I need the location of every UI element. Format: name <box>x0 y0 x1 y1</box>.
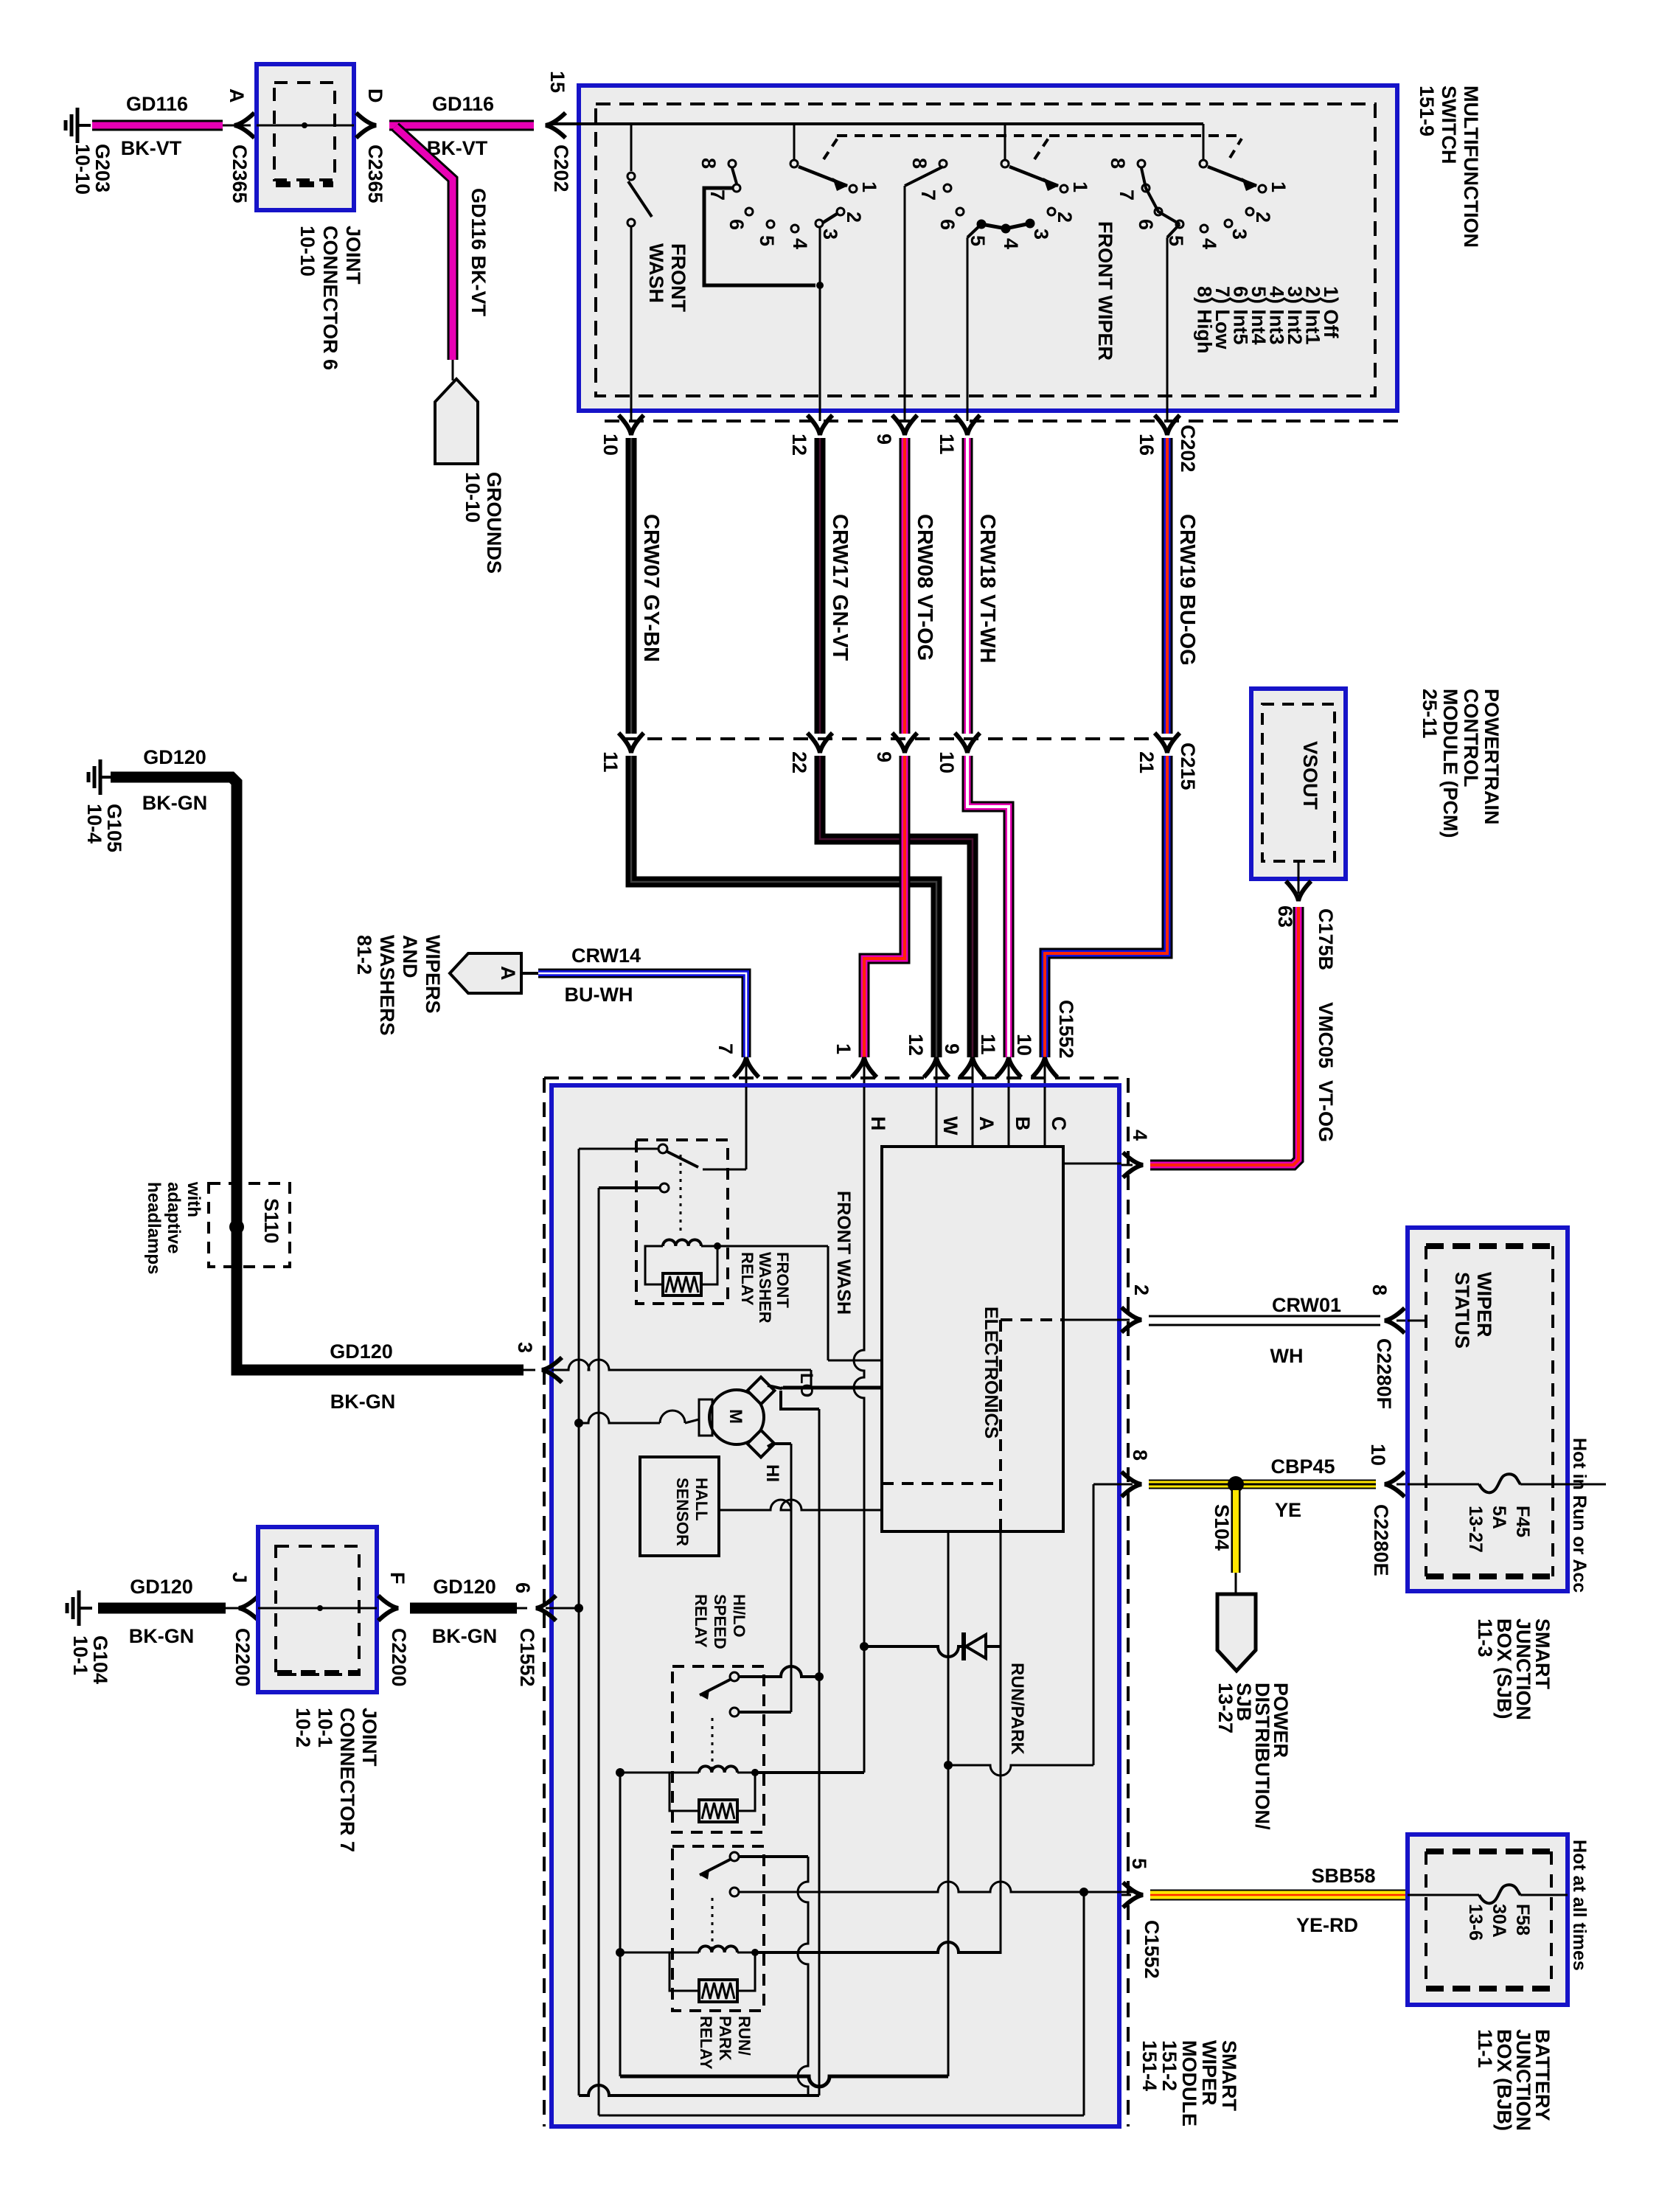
svg-text:SBB58: SBB58 <box>1311 1865 1375 1887</box>
module pin3 internal line <box>552 1360 811 1388</box>
svg-text:12: 12 <box>788 434 810 456</box>
module internal bus B <box>598 1188 600 2115</box>
wire CRW14 BU-WH <box>521 973 746 1057</box>
wire SBB58 YE-RD <box>1150 1890 1408 1901</box>
label LO <box>796 1373 816 1397</box>
svg-text:C1552: C1552 <box>1055 1000 1077 1059</box>
svg-text:C2365: C2365 <box>229 145 251 204</box>
svg-text:30A: 30A <box>1489 1904 1509 1938</box>
svg-text:C2200: C2200 <box>388 1628 410 1687</box>
label C202 at pin16 <box>1177 425 1199 473</box>
label BATTERY JUNCTION BOX BJB 11-1 <box>1474 2029 1554 2131</box>
svg-text:B: B <box>1012 1116 1034 1131</box>
svg-text:D: D <box>364 88 386 103</box>
svg-text:with: with <box>184 1181 204 1217</box>
C202 pin 10 arrow <box>599 415 644 456</box>
run-park coil line <box>755 1942 1001 1952</box>
power distribution off-page symbol <box>1217 1594 1256 1671</box>
svg-text:A: A <box>975 1116 998 1131</box>
svg-text:151-9: 151-9 <box>1416 86 1438 136</box>
svg-text:MODULE: MODULE <box>1178 2040 1200 2126</box>
svg-text:F45: F45 <box>1512 1506 1533 1537</box>
wiper status SJB box <box>1408 1228 1568 1591</box>
svg-text:10-1: 10-1 <box>69 1635 91 1675</box>
connector pin D C2365 <box>356 88 386 204</box>
wiper switch deck 1 <box>698 124 880 421</box>
module front wash assembly box <box>636 1140 728 1304</box>
connector pin 15 C202 <box>546 71 572 192</box>
wire S104 to power distribution <box>1231 1490 1241 1594</box>
multifunction switch box <box>579 86 1397 411</box>
label GD116 <box>126 93 188 115</box>
svg-text:CRW08 VT-OG: CRW08 VT-OG <box>913 514 936 661</box>
wiper motor M <box>699 1377 774 1458</box>
module pin 6 C1552 <box>512 1582 556 1687</box>
svg-text:LO: LO <box>796 1373 816 1397</box>
svg-text:RELAY: RELAY <box>692 1594 710 1648</box>
svg-text:22: 22 <box>788 751 810 773</box>
svg-text:YE-RD: YE-RD <box>1296 1914 1358 1936</box>
svg-text:BK-GN: BK-GN <box>129 1625 195 1647</box>
svg-text:FRONT WASH: FRONT WASH <box>833 1191 854 1315</box>
svg-text:1: 1 <box>832 1043 855 1054</box>
svg-text:C175B: C175B <box>1315 908 1337 970</box>
svg-text:13-6: 13-6 <box>1465 1904 1486 1941</box>
svg-text:A: A <box>497 966 519 981</box>
svg-text:C2200: C2200 <box>232 1628 254 1687</box>
svg-text:C: C <box>1048 1116 1070 1131</box>
label GD120 G104 <box>130 1576 193 1598</box>
module line B <box>1009 1087 1034 1148</box>
svg-text:W: W <box>939 1116 961 1135</box>
svg-text:CBP45: CBP45 <box>1270 1455 1335 1478</box>
module pin8 internal <box>1093 1484 1133 1765</box>
svg-text:3: 3 <box>819 229 841 240</box>
svg-text:C202: C202 <box>550 145 572 192</box>
module pin 9 arrow <box>941 1043 985 1087</box>
fuse F58 <box>1408 1885 1568 1903</box>
motor LO line <box>783 1386 882 1390</box>
front washer relay output <box>717 1246 882 1360</box>
off-page connector A <box>450 953 521 993</box>
electronics box <box>882 1147 1063 1531</box>
label VSOUT <box>1299 741 1321 810</box>
module pin5 internal line <box>739 1882 1133 1896</box>
module pin 5 arrow <box>1121 1858 1163 1979</box>
label FRONT WASH interior <box>833 1191 854 1315</box>
battery node line y2394 <box>944 1761 1093 1775</box>
module connector dashed boundary <box>544 1078 1128 2126</box>
svg-text:10-10: 10-10 <box>462 472 484 523</box>
fuse F45 <box>1408 1474 1606 1492</box>
C215 pin 11 arrow <box>599 733 644 773</box>
svg-text:ELECTRONICS: ELECTRONICS <box>981 1307 1001 1439</box>
wire CRW07 to module pin 12 <box>631 756 936 1057</box>
svg-text:WASHER: WASHER <box>756 1252 774 1324</box>
svg-text:10-4: 10-4 <box>83 804 105 844</box>
svg-text:WIPERS: WIPERS <box>422 935 444 1014</box>
label WIPER STATUS <box>1451 1272 1495 1349</box>
svg-text:BK-VT: BK-VT <box>121 137 182 159</box>
wire CRW08 VT-OG <box>905 438 936 734</box>
C202 pin 9 arrow <box>873 415 917 445</box>
svg-text:VSOUT: VSOUT <box>1299 741 1321 810</box>
svg-text:BU-WH: BU-WH <box>565 984 633 1006</box>
joint connector 6 <box>257 64 354 210</box>
joint connector 7 <box>258 1527 377 1692</box>
ground G203 <box>66 108 114 195</box>
svg-text:CRW14: CRW14 <box>571 945 641 967</box>
C2280F pin 8 arrow <box>1368 1284 1409 1409</box>
svg-text:3: 3 <box>514 1342 536 1353</box>
label SMART JUNCTION BOX SJB 11-3 <box>1474 1618 1554 1720</box>
svg-text:GD116 BK-VT: GD116 BK-VT <box>467 188 490 317</box>
wire CRW01 inside SJB <box>1408 1320 1427 1322</box>
svg-text:headlamps: headlamps <box>144 1182 164 1274</box>
svg-text:AND: AND <box>399 935 421 978</box>
svg-text:G104: G104 <box>89 1635 111 1684</box>
C215 pin 22 arrow <box>788 733 832 773</box>
svg-text:C202: C202 <box>1177 425 1199 473</box>
svg-text:11: 11 <box>599 751 622 773</box>
svg-text:JOINT: JOINT <box>342 226 364 285</box>
svg-text:POWERTRAIN: POWERTRAIN <box>1481 689 1503 825</box>
svg-text:8) High: 8) High <box>1194 286 1216 354</box>
svg-text:2: 2 <box>1054 212 1076 223</box>
svg-text:GD120: GD120 <box>143 746 206 768</box>
wire VMC05 VT-OG <box>1150 907 1298 1165</box>
motor HI stub <box>768 1444 791 1447</box>
svg-text:SPEED: SPEED <box>711 1594 729 1649</box>
label GROUNDS 10-10 <box>462 472 505 574</box>
module front wash switch <box>579 1087 746 1192</box>
svg-text:RUN/: RUN/ <box>735 2016 754 2056</box>
run-park upper contact line <box>739 1855 808 1858</box>
label with adaptive headlamps <box>144 1181 204 1274</box>
svg-text:2: 2 <box>1130 1284 1152 1295</box>
svg-text:6: 6 <box>512 1582 534 1593</box>
grounds off-page symbol <box>435 379 478 464</box>
label C1552 top <box>1055 1000 1077 1059</box>
label GD120 G105 <box>143 746 206 768</box>
label GD116 BK-VT branch <box>467 188 490 317</box>
wire CRW17 GN-VT <box>820 438 852 734</box>
C2280E pin 10 arrow <box>1367 1444 1409 1576</box>
svg-text:1: 1 <box>1069 181 1091 192</box>
svg-text:2: 2 <box>1252 212 1274 223</box>
svg-text:81-2: 81-2 <box>353 935 375 975</box>
svg-text:6: 6 <box>726 219 748 230</box>
wire CRW18 to module pin 11 <box>967 756 1009 1057</box>
svg-text:YE: YE <box>1275 1499 1301 1521</box>
module bottom line 2 <box>579 2085 819 2096</box>
module pin 11 arrow <box>977 1034 1021 1087</box>
svg-text:HI: HI <box>762 1464 782 1482</box>
label SBB58 <box>1311 1865 1375 1887</box>
svg-text:WIPER: WIPER <box>1473 1272 1495 1338</box>
motor feed line <box>574 1411 699 1427</box>
svg-text:1: 1 <box>1267 181 1290 192</box>
hi-lo upper contact line <box>739 1666 819 1677</box>
C202 pin 12 arrow <box>788 415 832 456</box>
svg-text:adaptive: adaptive <box>164 1182 184 1253</box>
label POWERTRAIN CONTROL MODULE <box>1419 689 1503 838</box>
label POWER DISTRIBUTION SJB 13-27 <box>1214 1683 1292 1830</box>
svg-text:H: H <box>867 1116 889 1131</box>
svg-text:151-2: 151-2 <box>1158 2040 1180 2091</box>
module H line from pin 1 <box>751 1087 869 1776</box>
label BK-GN pin3 <box>330 1391 396 1413</box>
module line W <box>936 1087 961 1148</box>
svg-text:10-1: 10-1 <box>314 1708 336 1747</box>
svg-text:16: 16 <box>1135 434 1158 456</box>
label VMC05 <box>1315 1002 1337 1068</box>
module pin 2 arrow <box>1065 1284 1152 1332</box>
label BK-GN G104 <box>129 1625 195 1647</box>
svg-text:CONTROL: CONTROL <box>1460 689 1482 787</box>
svg-text:Hot at all times: Hot at all times <box>1569 1840 1590 1971</box>
connector pin A C2365 <box>226 88 254 204</box>
svg-text:WH: WH <box>1270 1345 1304 1367</box>
motor vertical to hi-lo relay <box>815 1409 824 2096</box>
C215 pin 10 arrow <box>936 733 980 773</box>
hi-lo lower contact line <box>739 1711 791 1714</box>
svg-text:BK-VT: BK-VT <box>427 137 488 159</box>
label BK-VT <box>121 137 182 159</box>
svg-text:4: 4 <box>1000 238 1022 249</box>
wire CBP45 YE <box>1149 1480 1376 1489</box>
module line C <box>1045 1087 1070 1148</box>
svg-text:F: F <box>386 1572 408 1585</box>
powertrain control module box <box>1251 689 1346 879</box>
svg-text:3: 3 <box>1228 229 1251 240</box>
label C215 <box>1177 742 1199 790</box>
svg-text:WASH: WASH <box>645 243 667 303</box>
wire CRW19 BU-OG <box>1167 438 1199 734</box>
svg-text:G105: G105 <box>103 804 125 852</box>
label HI <box>762 1464 782 1482</box>
module pin 10 arrow <box>1013 1034 1057 1087</box>
svg-text:CRW01: CRW01 <box>1272 1294 1341 1316</box>
smart wiper module box <box>552 1085 1119 2126</box>
svg-text:FRONT: FRONT <box>773 1252 792 1308</box>
svg-text:CONNECTOR 7: CONNECTOR 7 <box>336 1708 358 1852</box>
svg-text:7: 7 <box>1116 189 1138 201</box>
label F58 30A 13-6 <box>1465 1904 1533 1941</box>
wire GD116 BK-VT (C2365 to C202) <box>389 120 534 131</box>
svg-text:5A: 5A <box>1489 1506 1509 1529</box>
svg-text:4: 4 <box>1129 1130 1151 1141</box>
svg-text:5: 5 <box>1128 1858 1150 1869</box>
hi-lo relay coil to H line <box>755 1771 864 1774</box>
svg-text:8: 8 <box>1368 1284 1391 1295</box>
svg-text:10-2: 10-2 <box>292 1708 314 1747</box>
label MULTIFUNCTION SWITCH 151-9 <box>1416 86 1482 248</box>
svg-text:9: 9 <box>873 751 895 762</box>
wire GD120 BK-GN from G105 <box>111 777 535 1370</box>
svg-text:25-11: 25-11 <box>1419 689 1441 739</box>
svg-text:1: 1 <box>858 181 880 192</box>
battery junction box <box>1408 1834 1568 2005</box>
svg-text:GD120: GD120 <box>433 1576 496 1598</box>
connector C202 dashed line <box>605 420 1405 422</box>
label WH <box>1270 1345 1304 1367</box>
svg-text:GROUNDS: GROUNDS <box>483 472 505 574</box>
electronics output vertical x1286 <box>947 1531 950 2076</box>
svg-text:FRONT WIPER: FRONT WIPER <box>1094 221 1116 361</box>
label RUN/ PARK RELAY <box>697 2016 754 2070</box>
label FRONT WIPER <box>1094 221 1116 361</box>
wire CRW07 GY-BN <box>631 438 663 734</box>
label ELECTRONICS <box>981 1307 1001 1439</box>
svg-text:CRW07 GY-BN: CRW07 GY-BN <box>639 514 663 662</box>
svg-text:RUN/PARK: RUN/PARK <box>1007 1663 1027 1756</box>
ground G105 <box>83 759 125 852</box>
svg-text:11: 11 <box>977 1034 999 1055</box>
label YE-RD <box>1296 1914 1358 1936</box>
svg-text:7: 7 <box>706 189 728 201</box>
svg-text:151-4: 151-4 <box>1138 2040 1161 2091</box>
label BK-GN pin6 <box>432 1625 498 1647</box>
connector pin F C2200 <box>378 1572 410 1687</box>
module bottom line 1 <box>620 2076 948 2087</box>
svg-text:C2280E: C2280E <box>1370 1504 1392 1576</box>
wire CRW19 to module pin 10 <box>1045 756 1167 1057</box>
svg-text:8: 8 <box>1129 1450 1151 1461</box>
svg-text:9: 9 <box>941 1043 963 1054</box>
svg-text:7: 7 <box>917 189 939 201</box>
run-park relay <box>616 1846 764 2011</box>
svg-text:SWITCH: SWITCH <box>1438 86 1460 164</box>
hall sensor box <box>640 1457 719 1556</box>
C215 pin 21 arrow <box>1135 733 1180 773</box>
svg-text:11: 11 <box>936 434 958 455</box>
front washer relay dotted actuator <box>680 1155 682 1236</box>
wire CRW17 to module pin 9 <box>820 756 973 1057</box>
svg-text:5: 5 <box>967 235 989 246</box>
svg-text:WASHERS: WASHERS <box>376 935 398 1036</box>
svg-text:2: 2 <box>843 212 865 223</box>
label JOINT CONNECTOR 6 10-10 <box>296 226 364 370</box>
label GD120 pin6 <box>433 1576 496 1598</box>
svg-text:5: 5 <box>756 235 778 246</box>
label RUN/PARK <box>1007 1663 1027 1756</box>
svg-text:8: 8 <box>698 158 720 169</box>
svg-text:10: 10 <box>1367 1444 1389 1466</box>
svg-text:CRW17 GN-VT: CRW17 GN-VT <box>828 514 852 661</box>
splice S104 <box>1211 1476 1244 1551</box>
svg-text:CONNECTOR 6: CONNECTOR 6 <box>319 226 341 370</box>
hall sensor output <box>719 1500 882 1510</box>
module internal ground bus A <box>578 1149 580 2096</box>
feed wire from pin 15 <box>551 122 1203 125</box>
label CBP45 <box>1270 1455 1335 1478</box>
svg-text:VMC05: VMC05 <box>1315 1002 1337 1068</box>
front washer relay coil <box>645 1239 721 1295</box>
front wash switch <box>627 124 652 421</box>
module line A <box>973 1087 998 1148</box>
label YE <box>1275 1499 1301 1521</box>
label F45 5A 13-27 <box>1465 1506 1533 1553</box>
label CRW14 <box>571 945 641 967</box>
svg-text:12: 12 <box>905 1034 927 1056</box>
wire CRW08 to module pin 1 <box>864 756 905 1057</box>
svg-text:C2280F: C2280F <box>1373 1338 1395 1409</box>
motor HI vertical <box>790 1444 793 1712</box>
wire GD120 BK-GN to module <box>410 1603 527 1614</box>
label VT-OG <box>1315 1080 1337 1142</box>
svg-text:GD116: GD116 <box>432 93 494 115</box>
svg-text:6: 6 <box>1135 219 1157 230</box>
svg-text:10: 10 <box>936 751 958 773</box>
pin5 junction vertical <box>1083 1892 1085 2115</box>
module bottom line 3 <box>599 2115 1084 2117</box>
svg-text:15: 15 <box>546 71 568 93</box>
svg-text:FRONT: FRONT <box>667 243 689 312</box>
label BK-VT 2 <box>427 137 488 159</box>
hi-lo speed relay <box>616 1666 764 1832</box>
svg-text:A: A <box>226 88 248 103</box>
svg-text:GD120: GD120 <box>330 1340 393 1363</box>
svg-text:10: 10 <box>1013 1034 1035 1056</box>
svg-text:RELAY: RELAY <box>738 1252 757 1306</box>
connector pin J C2200 <box>229 1572 259 1687</box>
svg-text:BK-GN: BK-GN <box>432 1625 498 1647</box>
label H <box>867 1116 889 1131</box>
svg-text:HALL: HALL <box>692 1478 711 1521</box>
svg-text:10-10: 10-10 <box>72 144 94 195</box>
svg-text:VT-OG: VT-OG <box>1315 1080 1337 1142</box>
label Hot at all times <box>1569 1840 1590 1971</box>
module pin 12 arrow <box>905 1034 949 1087</box>
module pin 3 <box>514 1342 562 1382</box>
module pin 7 arrow <box>714 1043 759 1087</box>
wiper switch deck 2 <box>905 124 1091 421</box>
wire GD120 BK-GN G104 <box>98 1603 239 1614</box>
PCM pin 63 <box>1274 861 1337 970</box>
C202 pin 16 arrow <box>1135 415 1180 456</box>
svg-text:J: J <box>229 1572 251 1583</box>
module pin6 internal line <box>546 1604 583 1613</box>
label FRONT WASHER RELAY <box>738 1252 792 1324</box>
label HALL SENSOR <box>673 1478 711 1546</box>
svg-text:10-10: 10-10 <box>296 226 319 276</box>
label BK-GN G105 <box>142 792 208 814</box>
motor LO stub <box>768 1385 819 1409</box>
label HI/LO SPEED RELAY <box>692 1594 748 1649</box>
svg-text:Hot in Run or Acc: Hot in Run or Acc <box>1569 1438 1590 1593</box>
wire CRW01 WH <box>1149 1316 1380 1325</box>
svg-text:5: 5 <box>1165 235 1187 246</box>
svg-text:C1552: C1552 <box>516 1628 538 1687</box>
label CRW01 <box>1272 1294 1341 1316</box>
label GD120 pin3 <box>330 1340 393 1363</box>
svg-text:3: 3 <box>1030 229 1052 240</box>
C215 pin 9 arrow <box>873 733 917 762</box>
svg-text:MULTIFUNCTION: MULTIFUNCTION <box>1460 86 1482 248</box>
C202 pin 11 arrow <box>936 415 980 455</box>
module pin 1 arrow <box>832 1043 877 1087</box>
svg-text:WIPER: WIPER <box>1198 2040 1220 2106</box>
wire GD116 branch to grounds <box>395 127 453 380</box>
module pin 4 <box>1065 1130 1151 1178</box>
svg-text:8: 8 <box>908 158 931 169</box>
svg-text:PARK: PARK <box>716 2016 734 2061</box>
svg-text:6: 6 <box>936 219 959 230</box>
label GD116 2 <box>432 93 494 115</box>
svg-text:STATUS: STATUS <box>1451 1272 1473 1349</box>
svg-text:GD120: GD120 <box>130 1576 193 1598</box>
